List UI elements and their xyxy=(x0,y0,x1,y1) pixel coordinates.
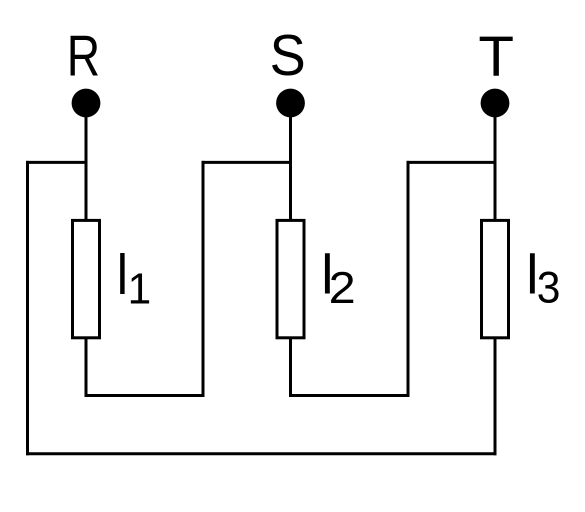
lamp I3 body xyxy=(482,220,509,337)
svg-text:1: 1 xyxy=(128,265,152,314)
terminal dot S xyxy=(276,89,305,118)
svg-text:S: S xyxy=(270,22,306,87)
svg-text:T: T xyxy=(478,25,514,88)
lamp I2 body xyxy=(277,220,304,337)
wire top rail segment node R to left rail xyxy=(26,161,88,164)
svg-text:3: 3 xyxy=(537,264,561,313)
wire bottom link I2 to riser 2 xyxy=(289,394,410,397)
wire S terminal down to lamp I2 top xyxy=(289,103,292,220)
svg-text:I: I xyxy=(116,241,129,307)
wire riser 2 vertical xyxy=(407,161,410,397)
terminal dot T xyxy=(481,89,510,118)
wire lamp I2 bottom down xyxy=(289,338,292,397)
wire T terminal down to lamp I3 top xyxy=(494,103,497,220)
wire bottom rail from left rail to lamp I3 bottom xyxy=(26,452,497,455)
wire lamp I3 bottom down to bottom rail xyxy=(494,338,497,455)
wire lamp I1 bottom down xyxy=(85,338,88,397)
wire top rail segment riser 2 to node T xyxy=(407,161,497,164)
svg-text:2: 2 xyxy=(329,263,356,312)
wire top rail segment riser 1 to node S xyxy=(202,161,293,164)
lamp I1 body xyxy=(73,220,100,337)
wire bottom link I1 to riser 1 xyxy=(85,394,205,397)
wire left rail vertical xyxy=(26,161,29,455)
terminal dot R xyxy=(72,89,101,118)
wire riser 1 vertical xyxy=(202,161,205,397)
wire R terminal down to lamp I1 top xyxy=(85,103,88,220)
svg-text:R: R xyxy=(67,25,100,89)
